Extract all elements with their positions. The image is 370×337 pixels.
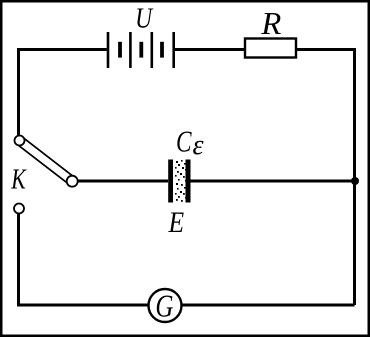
wire: galvanometer to bottom-right corner <box>182 304 355 307</box>
wire: battery to resistor <box>174 48 245 51</box>
wire: junction down right side to bottom corner <box>353 181 356 305</box>
svg-text:K: K <box>10 162 27 195</box>
svg-text:G: G <box>155 289 173 325</box>
svg-text:R: R <box>260 5 281 41</box>
battery U <box>108 32 174 68</box>
svg-text:C: C <box>176 124 192 158</box>
svg-text:ε: ε <box>193 130 204 161</box>
wire: lower-left vertical from switch contact to bottom corner <box>19 213 149 305</box>
switch K <box>14 136 78 214</box>
wire: resistor to top-right corner and down to junction <box>296 50 355 180</box>
resistor R <box>245 39 296 58</box>
galvanometer G <box>149 289 182 322</box>
dielectric stipple <box>175 160 187 202</box>
wire: switch pivot to capacitor (middle run) <box>78 180 169 183</box>
wire: capacitor to junction <box>191 180 354 183</box>
wire: upper-left vertical + top run to battery <box>19 50 107 136</box>
junction node <box>351 177 359 185</box>
capacitor C (plates with dielectric) <box>168 160 190 203</box>
svg-text:E: E <box>168 206 184 239</box>
svg-text:U: U <box>135 3 154 34</box>
